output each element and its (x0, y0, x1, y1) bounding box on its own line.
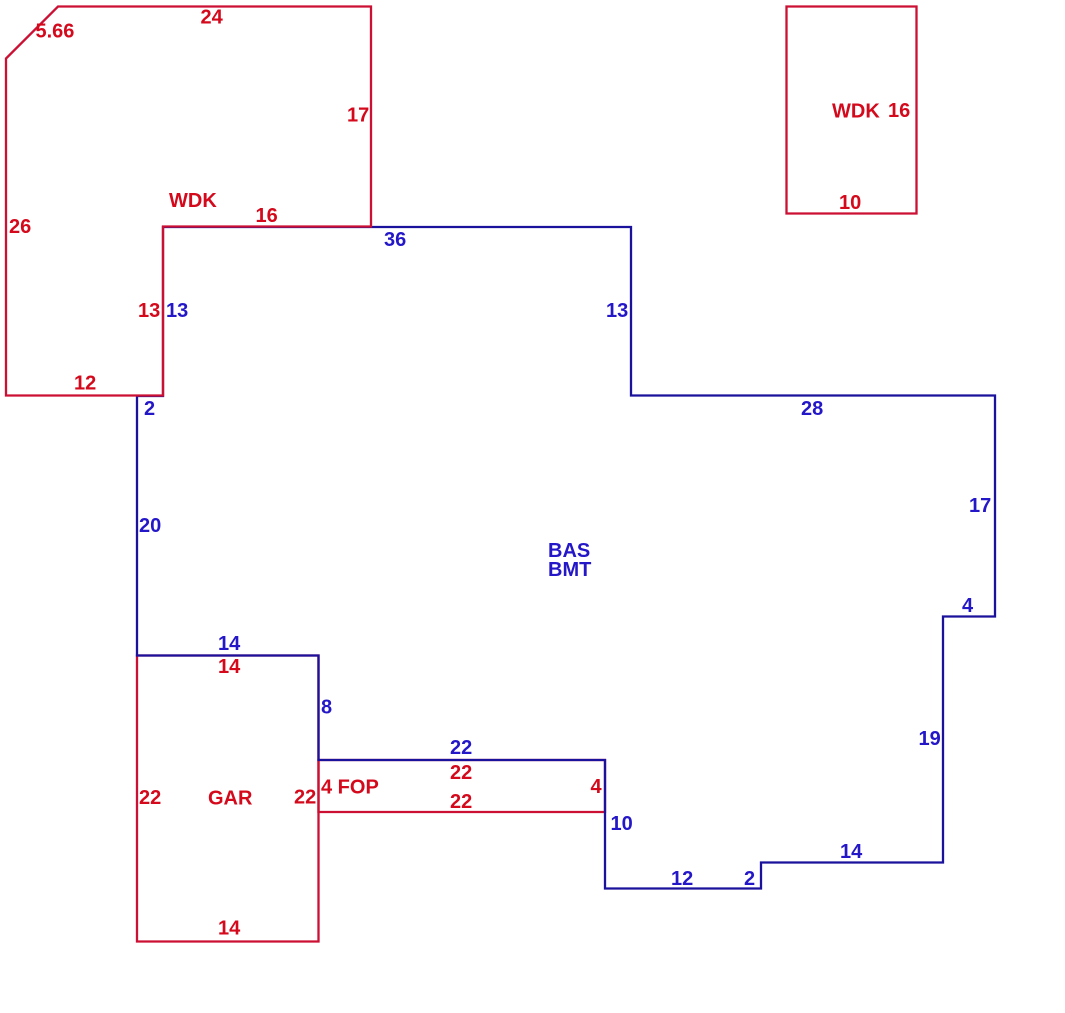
svg-text:10: 10 (839, 192, 861, 214)
svg-text:12: 12 (671, 868, 693, 890)
svg-text:4 FOP: 4 FOP (321, 777, 379, 799)
svg-text:22: 22 (450, 762, 472, 784)
svg-text:2: 2 (144, 398, 155, 420)
svg-text:4: 4 (962, 595, 974, 617)
svg-text:WDK: WDK (832, 101, 880, 123)
svg-text:17: 17 (347, 105, 369, 127)
svg-text:17: 17 (969, 495, 991, 517)
svg-text:26: 26 (9, 216, 31, 238)
svg-text:10: 10 (611, 813, 633, 835)
svg-text:8: 8 (321, 697, 332, 719)
svg-text:2: 2 (744, 868, 755, 890)
svg-text:20: 20 (139, 515, 161, 537)
svg-text:12: 12 (74, 373, 96, 395)
svg-text:36: 36 (384, 229, 406, 251)
svg-text:4: 4 (591, 776, 603, 798)
svg-text:24: 24 (201, 7, 224, 29)
svg-text:14: 14 (840, 841, 863, 863)
svg-text:22: 22 (139, 787, 161, 809)
svg-text:13: 13 (606, 300, 628, 322)
svg-text:28: 28 (801, 398, 823, 420)
svg-text:14: 14 (218, 633, 241, 655)
svg-text:BMT: BMT (548, 559, 591, 581)
svg-text:19: 19 (919, 728, 941, 750)
svg-text:16: 16 (256, 205, 278, 227)
svg-text:16: 16 (888, 100, 910, 122)
svg-text:13: 13 (166, 300, 188, 322)
svg-text:5.66: 5.66 (36, 21, 75, 43)
svg-text:GAR: GAR (208, 788, 253, 810)
svg-text:22: 22 (450, 737, 472, 759)
svg-text:22: 22 (450, 791, 472, 813)
svg-text:14: 14 (218, 656, 241, 678)
svg-text:WDK: WDK (169, 190, 217, 212)
svg-text:13: 13 (138, 300, 160, 322)
svg-text:22: 22 (294, 787, 316, 809)
svg-text:14: 14 (218, 918, 241, 940)
